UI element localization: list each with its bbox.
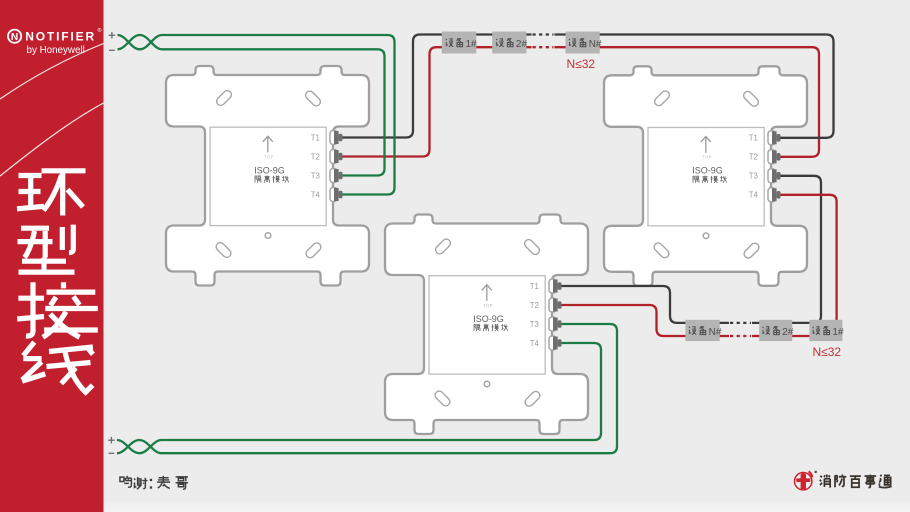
big character JIE <box>17 282 98 337</box>
svg-text:2#: 2# <box>782 327 794 338</box>
svg-text:N#: N# <box>589 39 602 50</box>
svg-text:N#: N# <box>709 327 722 338</box>
red sidebar <box>0 0 104 512</box>
device box top 1# <box>442 32 477 54</box>
wire red M2.T4 to bottom bus to M3.T2 <box>562 195 837 336</box>
svg-text:NOTIFIER: NOTIFIER <box>25 30 96 44</box>
NOTIFIER logo circle <box>8 30 21 43</box>
bottom bus dash gap mask <box>729 316 752 342</box>
svg-text:2#: 2# <box>516 39 528 50</box>
svg-text:by Honeywell: by Honeywell <box>27 45 85 56</box>
top bus black dashes <box>533 33 554 35</box>
sidebar decorative arc 1 <box>0 44 104 100</box>
svg-text:N: N <box>11 32 18 43</box>
device box top N# <box>566 32 602 54</box>
top bus red dashes <box>533 46 554 48</box>
wire black M1.T1 to top bus to M2.T1 <box>343 35 834 138</box>
wire red M1.T2 to top bus to M2.T2 <box>343 47 820 157</box>
brand logo text <box>820 475 892 488</box>
device box bottom 1# <box>809 320 844 341</box>
svg-text:®: ® <box>98 27 102 34</box>
plus sign top pair <box>109 32 116 39</box>
wire green bottom pair plus to M3.T4 <box>117 343 601 453</box>
top bus dash gap mask <box>532 28 555 54</box>
svg-text:N≤32: N≤32 <box>567 57 596 71</box>
svg-text:N≤32: N≤32 <box>813 345 842 359</box>
wire green top pair minus to M1.T3 <box>118 35 385 176</box>
module M1 backplate <box>166 66 369 286</box>
bottom bus black dashes <box>730 322 751 324</box>
big character HUAN <box>17 171 86 216</box>
device box bottom N# <box>685 320 721 341</box>
credit text <box>120 476 188 489</box>
wire green top pair plus to M1.T4 <box>118 35 395 195</box>
module M3 backplate <box>385 215 588 435</box>
big character XIAN <box>22 342 93 392</box>
bottom fade strip <box>104 500 910 512</box>
svg-text:1#: 1# <box>832 327 844 338</box>
wire black M2.T3 to bottom bus to M3.T1 <box>562 176 822 323</box>
minus sign bottom pair <box>109 452 115 454</box>
svg-text:1#: 1# <box>466 39 478 50</box>
minus sign top pair <box>109 49 115 51</box>
module M2 backplate <box>604 66 807 285</box>
sidebar decorative arc 2 <box>0 103 104 176</box>
brand logo emblem <box>795 471 817 490</box>
plus sign bottom pair <box>108 437 115 444</box>
device box bottom 2# <box>759 320 794 341</box>
wire green bottom pair minus to M3.T3 <box>117 324 617 453</box>
device box top 2# <box>492 32 527 54</box>
big character XING <box>18 225 75 273</box>
bottom bus red dashes <box>730 335 751 337</box>
